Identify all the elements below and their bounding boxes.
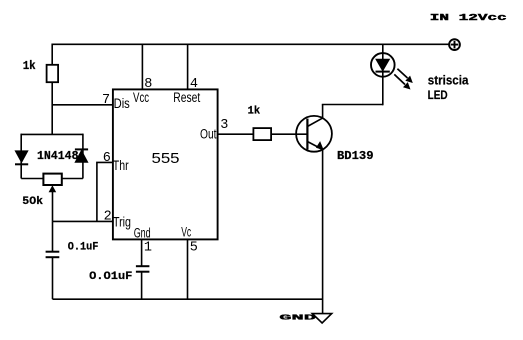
- wire diode right branch: [82, 134, 84, 179]
- svg-text:Dis: Dis: [114, 96, 130, 111]
- svg-text:BD139: BD139: [337, 149, 374, 163]
- LED light arrow 2: [394, 74, 410, 89]
- svg-text:O.O1uF: O.O1uF: [89, 271, 132, 283]
- svg-text:1k: 1k: [23, 60, 36, 73]
- svg-text:O.1uF: O.1uF: [68, 241, 99, 253]
- svg-text:GND: GND: [279, 314, 316, 322]
- svg-text:1k: 1k: [248, 106, 261, 118]
- wire diode network bottom rail: [21, 178, 83, 180]
- svg-text:Vc: Vc: [181, 225, 191, 240]
- LED light arrow 1: [397, 69, 412, 83]
- resistor R2 1k: [253, 128, 271, 140]
- wire pin 8 Vcc to top rail: [141, 44, 143, 88]
- LED D3: [371, 53, 395, 77]
- wire bottom ground rail: [53, 298, 323, 300]
- diode D2 1N4148 (right, pointing up): [75, 149, 88, 162]
- svg-text:LED: LED: [428, 90, 448, 102]
- wire diode left branch: [20, 134, 22, 179]
- transistor Q1 BD139: [296, 116, 332, 152]
- wire pin 1 Gnd down to C2: [141, 239, 143, 266]
- wire top supply rail: [52, 43, 449, 45]
- svg-text:1N4148: 1N4148: [37, 150, 79, 163]
- terminal +12V: [449, 39, 460, 50]
- wire pin 6 Thr: [97, 162, 113, 221]
- wire R2 to Q1 base: [271, 133, 307, 135]
- wire Q1 collector up: [322, 105, 324, 119]
- svg-text:Thr: Thr: [113, 158, 129, 173]
- svg-text:Vcc: Vcc: [133, 90, 149, 105]
- resistor R1: [47, 65, 59, 82]
- diode D1 1N4148 (left, pointing down): [15, 151, 28, 164]
- IC U1 555 timer: [113, 89, 218, 239]
- wire pin 2 Trig: [53, 220, 113, 222]
- svg-text:striscia: striscia: [428, 73, 470, 87]
- wire R1 to diode network top: [51, 82, 53, 134]
- svg-text:555: 555: [152, 150, 180, 167]
- wire pin 4 Reset to top rail: [187, 44, 189, 88]
- wire pin 5 Vc to bottom rail: [187, 239, 189, 299]
- potentiometer RV1 50k body: [43, 174, 61, 185]
- wire pin 7 Dis: [52, 104, 112, 106]
- capacitor C1 0.1uF: [46, 252, 60, 258]
- svg-text:Out: Out: [200, 127, 217, 142]
- svg-text:Trig: Trig: [113, 215, 131, 230]
- wire pin 3 Out to R2: [218, 133, 254, 135]
- svg-text:5: 5: [190, 240, 198, 255]
- potentiometer RV1 wiper arrow: [49, 185, 57, 221]
- svg-text:7: 7: [102, 93, 110, 108]
- capacitor C2 0.01uF: [136, 266, 150, 272]
- svg-text:1: 1: [144, 240, 152, 255]
- wire trig junction down to C1: [52, 221, 54, 251]
- svg-text:2: 2: [104, 210, 112, 225]
- wire LED through vertical: [382, 44, 384, 105]
- svg-text:Reset: Reset: [173, 90, 200, 105]
- svg-text:IN 12Vcc: IN 12Vcc: [430, 13, 507, 23]
- wire diode network top rail: [21, 133, 83, 135]
- svg-text:3: 3: [220, 118, 228, 133]
- ground symbol: [312, 314, 331, 323]
- svg-text:5Ok: 5Ok: [22, 196, 43, 208]
- wire collector horizontal to LED: [322, 104, 383, 106]
- wire left vertical from rail to R1: [51, 44, 53, 65]
- wire C2 to bottom rail: [141, 272, 143, 300]
- wire C1 to bottom rail: [52, 257, 54, 299]
- svg-text:Gnd: Gnd: [134, 226, 151, 241]
- svg-text:6: 6: [103, 151, 111, 166]
- wire Q1 emitter down to GND: [322, 150, 324, 314]
